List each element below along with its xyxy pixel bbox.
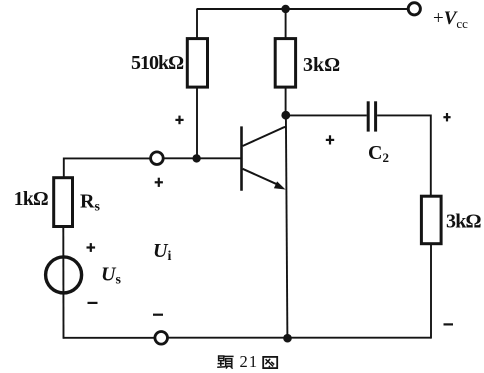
junction dot base node	[192, 154, 200, 162]
svg-text:21: 21	[240, 352, 259, 371]
minus sign above bottom output terminal	[153, 314, 163, 316]
wire rail to 3k collector resistor	[285, 9, 287, 39]
resistor R1 510kΩ	[187, 39, 207, 88]
input terminal	[151, 152, 164, 165]
wire from rail to 510k	[196, 9, 198, 39]
wire base: input terminal to transistor	[164, 157, 242, 159]
wire collector-emitter vertical	[286, 115, 288, 338]
plus sign Us	[87, 246, 96, 248]
wire 3k to collector node	[285, 87, 287, 115]
transistor Q1 base bar	[240, 126, 243, 190]
plus sign below input terminal	[155, 181, 163, 183]
transistor Q1 emitter stroke with arrow	[243, 169, 279, 185]
junction dot emitter/bottom rail	[283, 334, 292, 343]
source Us	[46, 257, 82, 293]
caption 题 21 图	[217, 352, 277, 371]
wire bottom rail right segment	[168, 337, 431, 339]
wire load to bottom rail	[430, 244, 432, 339]
wire bottom rail left segment	[63, 337, 155, 339]
wire right corner down to load	[430, 115, 432, 197]
glyph 题	[217, 356, 233, 369]
plus sign output top	[443, 116, 450, 118]
resistor Rs 1kΩ	[54, 178, 73, 227]
svg-text:1kΩ: 1kΩ	[14, 189, 48, 210]
wire left down to Rs	[63, 158, 65, 178]
junction dot collector node	[281, 111, 290, 120]
wire Rs to bottom rail (passes through source)	[62, 227, 64, 339]
plus sign above base wire	[175, 119, 183, 121]
minus sign output bottom	[444, 323, 454, 325]
wire C2 to right corner	[377, 114, 431, 116]
transistor Q1 collector stroke	[243, 127, 287, 146]
resistor R2 3kΩ (collector)	[275, 39, 295, 88]
power terminal +Vcc	[408, 3, 420, 15]
wire input left segment	[63, 157, 151, 159]
capacitor C2 plates	[367, 101, 370, 131]
resistor R3 3kΩ (load)	[421, 196, 441, 244]
wire collector node to C2	[286, 114, 367, 116]
svg-text:510kΩ: 510kΩ	[131, 52, 184, 74]
plus sign left of C2	[326, 139, 334, 141]
wire top rail	[197, 8, 408, 10]
svg-text:3kΩ: 3kΩ	[303, 54, 340, 76]
wire 510k to base node	[196, 87, 198, 158]
minus sign Us	[88, 302, 98, 304]
glyph 图	[263, 357, 277, 368]
svg-text:3kΩ: 3kΩ	[446, 211, 482, 233]
output terminal bottom	[155, 332, 168, 345]
junction dot top rail	[281, 5, 289, 13]
